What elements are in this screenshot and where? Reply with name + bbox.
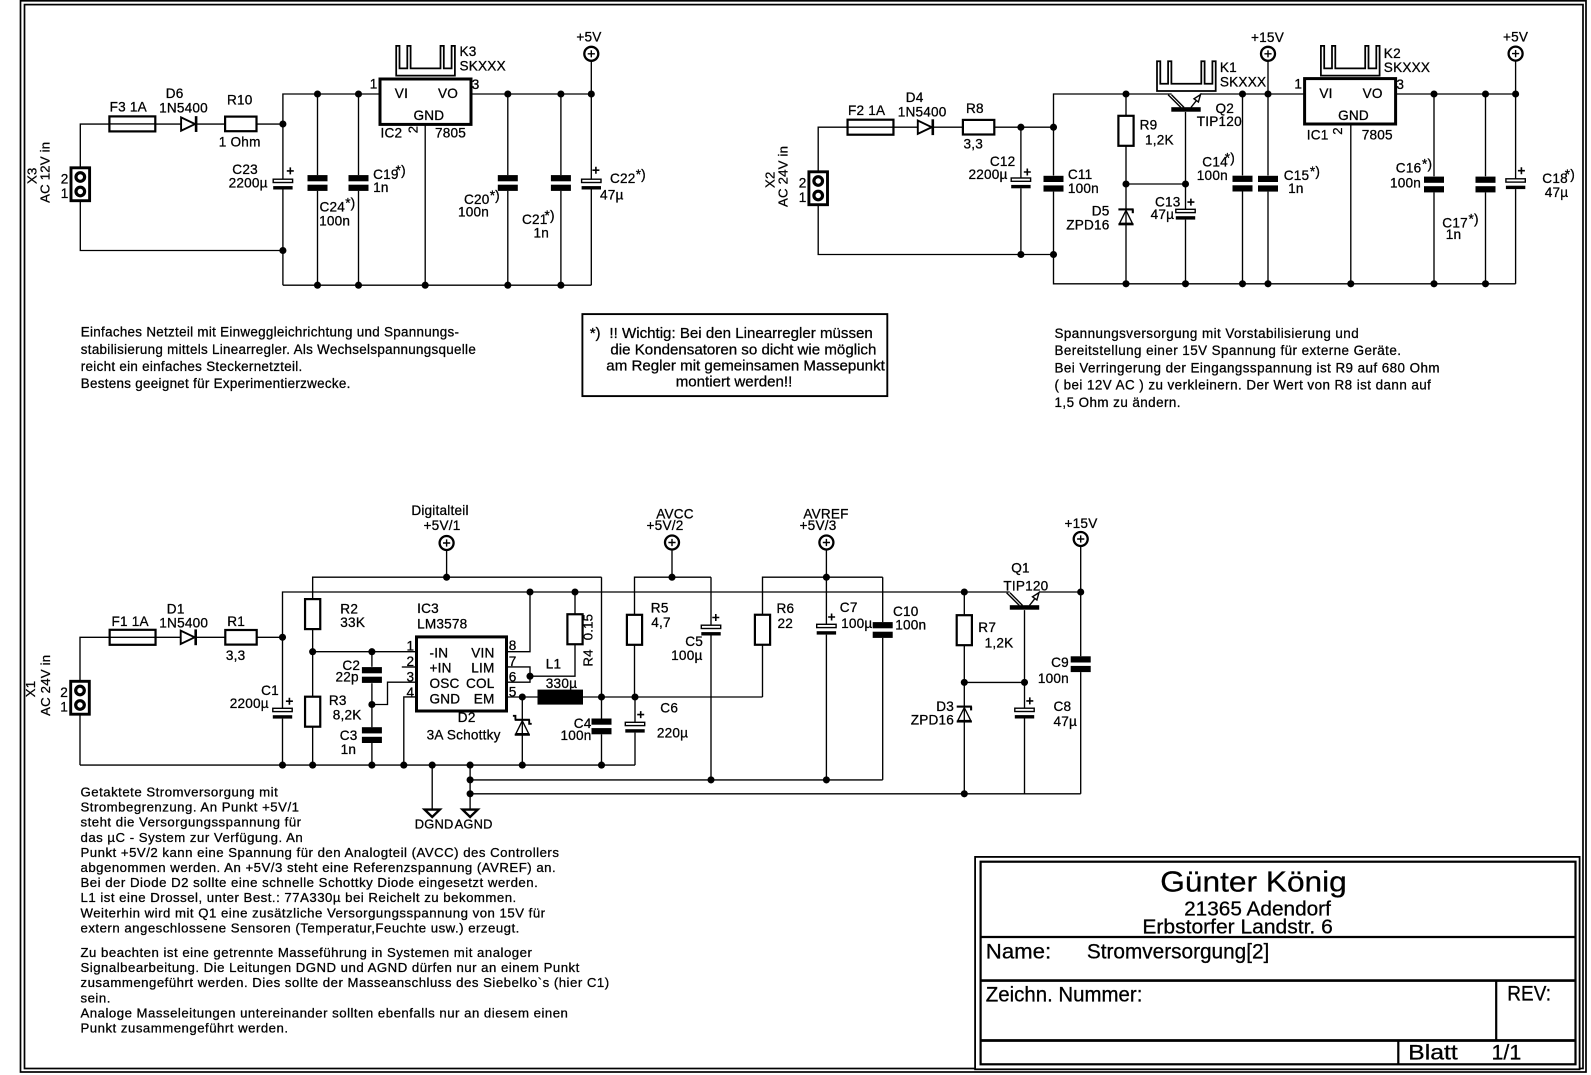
svg-text:R5: R5 xyxy=(651,601,669,616)
svg-text:LIM: LIM xyxy=(471,661,494,676)
svg-text:D1: D1 xyxy=(167,602,185,617)
wire xyxy=(583,696,635,698)
wire xyxy=(371,652,373,667)
svg-text:1: 1 xyxy=(407,638,415,653)
svg-text:K2: K2 xyxy=(1384,46,1401,61)
capacitor C19 1n xyxy=(349,175,369,181)
svg-text:R6: R6 xyxy=(777,601,795,616)
svg-text:VI: VI xyxy=(395,86,408,101)
wire xyxy=(1080,672,1082,794)
svg-text:VO: VO xyxy=(1363,86,1383,101)
heatsink K2 xyxy=(1321,46,1380,76)
wire xyxy=(1396,93,1516,95)
svg-text:+5V: +5V xyxy=(1503,30,1528,45)
wire xyxy=(507,191,509,285)
wire xyxy=(371,743,373,765)
wire xyxy=(882,638,884,780)
junction xyxy=(1122,90,1129,97)
svg-text:100n: 100n xyxy=(1038,671,1069,686)
junction xyxy=(1182,280,1189,287)
capacitor C24 100n xyxy=(308,175,328,181)
svg-text:Bei der Diode D2 sollte eine s: Bei der Diode D2 sollte eine schnelle Sc… xyxy=(81,875,539,890)
wire xyxy=(635,696,763,698)
wire xyxy=(1185,220,1187,284)
svg-text:VIN: VIN xyxy=(471,645,494,660)
svg-text:Zeichn. Nummer:: Zeichn. Nummer: xyxy=(986,984,1143,1007)
svg-text:R9: R9 xyxy=(1140,118,1158,133)
junction xyxy=(1347,280,1354,287)
wire xyxy=(404,697,417,765)
svg-text:1: 1 xyxy=(1294,77,1302,92)
svg-text:Punkt +5V/2 kann eine Spannung: Punkt +5V/2 kann eine Spannung für den A… xyxy=(81,845,560,860)
analog line B xyxy=(470,793,1081,795)
svg-text:GND: GND xyxy=(1338,108,1369,123)
junction xyxy=(314,90,321,97)
svg-text:*): *) xyxy=(490,188,500,203)
svg-text:47µ: 47µ xyxy=(600,188,624,203)
heatsink K1 xyxy=(1157,61,1216,91)
svg-text:Bei Verringerung der Eingangss: Bei Verringerung der Eingangsspannung is… xyxy=(1055,360,1441,375)
junction xyxy=(1050,251,1057,258)
svg-text:IC3: IC3 xyxy=(417,601,439,616)
junction xyxy=(1264,90,1271,97)
svg-text:100n: 100n xyxy=(1197,168,1228,183)
svg-text:DGND: DGND xyxy=(415,817,454,832)
svg-text:Q1: Q1 xyxy=(1011,561,1030,576)
svg-text:47µ: 47µ xyxy=(1151,207,1175,222)
wire xyxy=(1039,591,1081,593)
wire xyxy=(590,61,592,94)
svg-text:1: 1 xyxy=(799,190,807,205)
capacitor C17 1n xyxy=(1476,177,1496,183)
svg-text:D2: D2 xyxy=(458,710,476,725)
svg-text:7805: 7805 xyxy=(435,126,466,141)
power +5V/1 terminal Digitalteil xyxy=(440,536,454,550)
wire xyxy=(1126,183,1186,185)
svg-text:3,3: 3,3 xyxy=(964,137,984,152)
wire xyxy=(80,201,283,251)
svg-text:1/1: 1/1 xyxy=(1492,1042,1522,1065)
svg-text:Name:: Name: xyxy=(986,941,1051,964)
resistor R1 3,3 xyxy=(225,630,256,645)
svg-text:+5V/2: +5V/2 xyxy=(647,518,684,533)
wire xyxy=(634,645,636,697)
svg-text:Signalbearbeitung. Die Leitung: Signalbearbeitung. Die Leitungen DGND un… xyxy=(81,960,580,975)
svg-text:R7: R7 xyxy=(978,620,996,635)
svg-text:Zu beachten ist eine getrennte: Zu beachten ist eine getrennte Masseführ… xyxy=(81,945,533,960)
svg-text:0.15: 0.15 xyxy=(581,614,596,640)
capacitor C20 100n xyxy=(498,175,518,181)
junction xyxy=(467,790,474,797)
svg-text:*): *) xyxy=(345,196,355,211)
svg-text:Bereitstellung einer 15V Spann: Bereitstellung einer 15V Spannung für ex… xyxy=(1055,343,1402,358)
wire xyxy=(313,577,602,599)
junction xyxy=(823,776,830,783)
power +15V terminal xyxy=(1261,47,1275,61)
svg-text:*): *) xyxy=(590,325,601,342)
junction xyxy=(467,762,474,769)
svg-text:sein.: sein. xyxy=(81,990,111,1005)
svg-text:AGND: AGND xyxy=(455,817,493,832)
wire xyxy=(825,635,827,780)
inductor L1 330u xyxy=(538,690,584,705)
svg-text:100n: 100n xyxy=(458,204,489,219)
junction xyxy=(1122,280,1129,287)
fuse F3 1A xyxy=(109,116,155,131)
junction xyxy=(961,790,968,797)
wire xyxy=(371,683,373,704)
op-amp IC1 7805 xyxy=(1305,79,1396,124)
junction xyxy=(368,762,375,769)
svg-text:1,2K: 1,2K xyxy=(985,636,1014,651)
ground rail wire xyxy=(283,284,591,286)
wire xyxy=(994,126,1054,128)
op-amp IC2 7805 xyxy=(380,79,471,124)
svg-text:C8: C8 xyxy=(1054,699,1072,714)
svg-text:GND: GND xyxy=(430,691,461,706)
junction xyxy=(368,648,375,655)
svg-text:100µ: 100µ xyxy=(671,648,702,663)
svg-text:F1 1A: F1 1A xyxy=(112,614,150,629)
svg-text:Getaktete Stromversorgung mit: Getaktete Stromversorgung mit xyxy=(81,785,279,800)
svg-text:100n: 100n xyxy=(1390,175,1421,190)
junction xyxy=(1430,280,1437,287)
svg-text:C6: C6 xyxy=(660,701,678,716)
resistor R3 8,2K xyxy=(305,697,320,727)
IC3 pin 2 stub xyxy=(402,666,417,668)
svg-text:100n: 100n xyxy=(895,618,926,633)
wire xyxy=(825,577,827,624)
svg-text:R4: R4 xyxy=(581,649,596,666)
svg-text:D5: D5 xyxy=(1092,204,1110,219)
svg-text:22p: 22p xyxy=(336,670,359,685)
junction xyxy=(631,693,638,700)
svg-text:R8: R8 xyxy=(966,101,984,116)
wire xyxy=(710,636,712,780)
svg-text:Weiterhin wird mit Q1 eine zus: Weiterhin wird mit Q1 eine zusätzliche V… xyxy=(81,905,546,920)
svg-text:R3: R3 xyxy=(329,693,347,708)
wire xyxy=(283,592,1010,637)
svg-text:100n: 100n xyxy=(560,728,591,743)
wire xyxy=(1024,610,1026,682)
wire xyxy=(317,191,319,285)
resistor R6 22 xyxy=(755,615,770,645)
svg-text:SKXXX: SKXXX xyxy=(1220,75,1266,90)
title block xyxy=(975,857,1580,1069)
wire xyxy=(964,681,1024,683)
svg-text:1n: 1n xyxy=(341,742,357,757)
svg-text:1 Ohm: 1 Ohm xyxy=(219,134,261,149)
wire xyxy=(1200,93,1305,95)
svg-text:330µ: 330µ xyxy=(546,676,577,691)
fuse F2 1A xyxy=(848,120,894,135)
capacitor C12 2200u xyxy=(1011,178,1030,181)
wire xyxy=(1080,592,1082,656)
junction xyxy=(598,762,605,769)
svg-text:C7: C7 xyxy=(840,600,858,615)
svg-text:VI: VI xyxy=(1319,86,1332,101)
wire xyxy=(1024,719,1026,794)
svg-text:K1: K1 xyxy=(1220,60,1237,75)
svg-text:2: 2 xyxy=(60,685,68,700)
junction xyxy=(309,648,316,655)
power +5V terminal xyxy=(584,47,598,61)
capacitor C11 100n xyxy=(1044,176,1064,182)
resistor R10 1 Ohm xyxy=(225,117,256,132)
junction xyxy=(519,762,526,769)
wire xyxy=(933,126,963,128)
svg-text:1n: 1n xyxy=(373,180,389,195)
wire xyxy=(963,645,965,683)
fuse F1 1A xyxy=(110,630,156,645)
resistor R8 3,3 xyxy=(963,120,994,135)
svg-text:3: 3 xyxy=(407,670,415,685)
svg-text:*): *) xyxy=(1422,156,1432,171)
wire xyxy=(371,705,373,728)
svg-text:COL: COL xyxy=(466,676,495,691)
svg-text:8: 8 xyxy=(509,638,517,653)
ground DGND xyxy=(431,765,433,810)
wire xyxy=(471,93,591,95)
svg-text:F3 1A: F3 1A xyxy=(110,99,148,114)
svg-text:2: 2 xyxy=(1330,127,1345,135)
junction xyxy=(309,762,316,769)
wire xyxy=(634,733,636,766)
junction xyxy=(1182,180,1189,187)
wire xyxy=(282,190,284,286)
junction xyxy=(707,776,714,783)
svg-text:1N5400: 1N5400 xyxy=(898,104,947,119)
junction xyxy=(1122,180,1129,187)
capacitor C5 100u xyxy=(701,625,720,628)
resistor R9 1,2K xyxy=(1118,116,1133,146)
wire xyxy=(317,94,319,175)
wire xyxy=(763,577,883,615)
transistor Q2 TIP120 xyxy=(1171,107,1200,112)
svg-text:-IN: -IN xyxy=(430,645,449,660)
resistor R2 33K xyxy=(305,599,320,629)
wire xyxy=(963,682,965,793)
wire xyxy=(312,727,314,765)
svg-text:1: 1 xyxy=(61,186,69,201)
resistor R7 1,2K xyxy=(957,615,972,645)
svg-text:Günter König: Günter König xyxy=(1160,867,1347,899)
wire xyxy=(507,667,531,682)
svg-text:das µC - System zur Verfügung.: das µC - System zur Verfügung. An xyxy=(81,830,304,845)
junction xyxy=(1264,280,1271,287)
svg-text:( bei 12V AC ) zu verkleinern.: ( bei 12V AC ) zu verkleinern. Der Wert … xyxy=(1055,378,1432,393)
wire xyxy=(507,696,538,698)
wire xyxy=(1080,546,1082,592)
junction xyxy=(598,693,605,700)
junction xyxy=(504,90,511,97)
svg-text:Bestens geeignet für Experimen: Bestens geeignet für Experimentierzwecke… xyxy=(81,376,351,391)
wire xyxy=(156,636,181,638)
diode D1 1N5400 xyxy=(181,631,195,644)
wire xyxy=(521,697,523,765)
svg-text:33K: 33K xyxy=(340,615,365,630)
diode D4 1N5400 xyxy=(918,121,932,134)
svg-text:1: 1 xyxy=(370,77,378,92)
svg-text:steht die Versorgungsspannung: steht die Versorgungsspannung für xyxy=(81,815,302,830)
junction xyxy=(1482,90,1489,97)
connector X2 xyxy=(809,172,828,205)
svg-text:C16: C16 xyxy=(1396,160,1422,175)
junction xyxy=(429,762,436,769)
svg-text:X1: X1 xyxy=(23,681,38,698)
wire xyxy=(1053,192,1055,255)
svg-text:montiert werden!!: montiert werden!! xyxy=(676,373,793,390)
wire xyxy=(1515,94,1517,179)
svg-text:LM3578: LM3578 xyxy=(417,616,467,631)
wire xyxy=(372,682,417,704)
svg-text:1n: 1n xyxy=(1446,227,1462,242)
svg-text:TIP120: TIP120 xyxy=(1003,578,1048,593)
svg-text:100µ: 100µ xyxy=(841,616,872,631)
svg-text:Erbstorfer Landstr. 6: Erbstorfer Landstr. 6 xyxy=(1142,917,1332,939)
junction xyxy=(1021,679,1028,686)
capacitor C7 100u xyxy=(817,624,836,627)
svg-text:2200µ: 2200µ xyxy=(969,167,1008,182)
wire xyxy=(196,636,225,638)
svg-text:+5V/3: +5V/3 xyxy=(800,518,837,533)
capacitor C9 100n xyxy=(1071,656,1091,662)
resistor R4 0.15 xyxy=(567,614,582,644)
wire xyxy=(1024,682,1026,708)
wire xyxy=(818,127,848,172)
wire xyxy=(963,592,965,616)
capacitor C23 2200u xyxy=(273,179,292,182)
capacitor C6 220u xyxy=(625,722,644,725)
svg-text:*): *) xyxy=(1469,212,1479,227)
svg-text:reicht ein einfaches Steckerne: reicht ein einfaches Steckernetzteil. xyxy=(81,359,303,374)
capacitor C13 47u xyxy=(1176,209,1195,212)
svg-text:1N5400: 1N5400 xyxy=(159,615,208,630)
wire xyxy=(424,124,426,285)
wire xyxy=(762,645,764,697)
wire xyxy=(1125,94,1127,116)
svg-text:R10: R10 xyxy=(227,93,253,108)
junction xyxy=(557,282,564,289)
svg-text:4: 4 xyxy=(407,685,415,700)
junction xyxy=(668,574,675,581)
diode D2 3A Schottky xyxy=(515,719,530,721)
wire xyxy=(1125,146,1127,284)
svg-text:C11: C11 xyxy=(1068,167,1093,182)
svg-text:OSC: OSC xyxy=(430,676,460,691)
power AVCC +5V/2 terminal xyxy=(665,536,679,550)
wire xyxy=(825,550,827,578)
junction xyxy=(961,679,968,686)
op-amp IC3 LM3578 xyxy=(417,637,507,711)
svg-text:REV:: REV: xyxy=(1507,983,1551,1006)
svg-text:+5V: +5V xyxy=(576,30,601,45)
svg-text:Analoge Masseleitungen unterei: Analoge Masseleitungen untereinander sol… xyxy=(81,1005,569,1020)
svg-text:*): *) xyxy=(1310,164,1320,179)
capacitor C8 47u xyxy=(1015,708,1034,711)
svg-text:220µ: 220µ xyxy=(657,726,688,741)
capacitor C15 1n xyxy=(1258,176,1278,182)
svg-text:1n: 1n xyxy=(1288,181,1304,196)
svg-text:1N5400: 1N5400 xyxy=(159,101,208,116)
junction xyxy=(1239,90,1246,97)
junction xyxy=(1430,90,1437,97)
junction xyxy=(1482,280,1489,287)
svg-text:1n: 1n xyxy=(534,226,550,241)
wire xyxy=(446,550,448,577)
svg-text:L1 ist eine Drossel, unter Bes: L1 ist eine Drossel, unter Best.: 77A330… xyxy=(81,890,517,905)
connector X3 xyxy=(71,168,90,201)
power AVREF +5V/3 terminal xyxy=(819,536,833,550)
svg-text:2: 2 xyxy=(61,172,69,187)
wire xyxy=(893,126,917,128)
junction xyxy=(467,776,474,783)
svg-text:!! Wichtig: Bei den Linearregl: !! Wichtig: Bei den Linearregler müssen xyxy=(609,325,872,342)
wire xyxy=(1020,127,1022,178)
svg-text:K3: K3 xyxy=(460,44,477,59)
svg-text:GND: GND xyxy=(414,108,445,123)
svg-text:die Kondensatoren so dicht wie: die Kondensatoren so dicht wie möglich xyxy=(610,341,876,358)
svg-text:EM: EM xyxy=(474,691,495,706)
wire xyxy=(1053,127,1055,175)
svg-text:2200µ: 2200µ xyxy=(229,176,268,191)
wire xyxy=(1485,192,1487,283)
svg-text:*): *) xyxy=(545,208,555,223)
ground AGND xyxy=(469,765,471,810)
wire xyxy=(507,592,531,652)
junction xyxy=(368,701,375,708)
svg-text:*): *) xyxy=(396,163,406,178)
wire xyxy=(1350,124,1352,284)
svg-text:+5V/1: +5V/1 xyxy=(424,518,461,533)
svg-text:Stromversorgung[2]: Stromversorgung[2] xyxy=(1087,941,1269,964)
junction xyxy=(279,121,286,128)
svg-text:Strombegrenzung. An Punkt +5V/: Strombegrenzung. An Punkt +5V/1 xyxy=(81,800,300,815)
main ground rail xyxy=(80,764,635,766)
junction xyxy=(279,247,286,254)
capacitor C4 100n xyxy=(592,719,612,725)
junction xyxy=(519,693,526,700)
svg-text:Digitalteil: Digitalteil xyxy=(411,503,468,518)
wire xyxy=(560,191,562,285)
wire xyxy=(1267,192,1269,284)
wire xyxy=(312,629,314,652)
wire xyxy=(155,123,181,125)
capacitor C3 1n xyxy=(362,727,382,733)
junction xyxy=(571,588,578,595)
wire xyxy=(257,636,282,638)
junction xyxy=(823,574,830,581)
capacitor C1 2200u xyxy=(273,708,292,711)
svg-text:*): *) xyxy=(1225,151,1235,166)
wire xyxy=(1242,94,1244,175)
junction xyxy=(1239,280,1246,287)
analog line A xyxy=(470,779,883,781)
svg-text:100n: 100n xyxy=(1068,181,1099,196)
capacitor C16 100n xyxy=(1424,177,1444,183)
junction xyxy=(557,90,564,97)
wire xyxy=(635,577,712,615)
svg-text:+15V: +15V xyxy=(1251,30,1284,45)
capacitor C21 1n xyxy=(551,175,571,181)
svg-text:R1: R1 xyxy=(227,614,245,629)
wire xyxy=(313,651,417,653)
capacitor C10 100n xyxy=(873,622,893,628)
resistor R5 4,7 xyxy=(627,615,642,645)
wire xyxy=(1515,189,1517,284)
capacitor C2 22p xyxy=(362,667,382,673)
wire xyxy=(1485,94,1487,176)
